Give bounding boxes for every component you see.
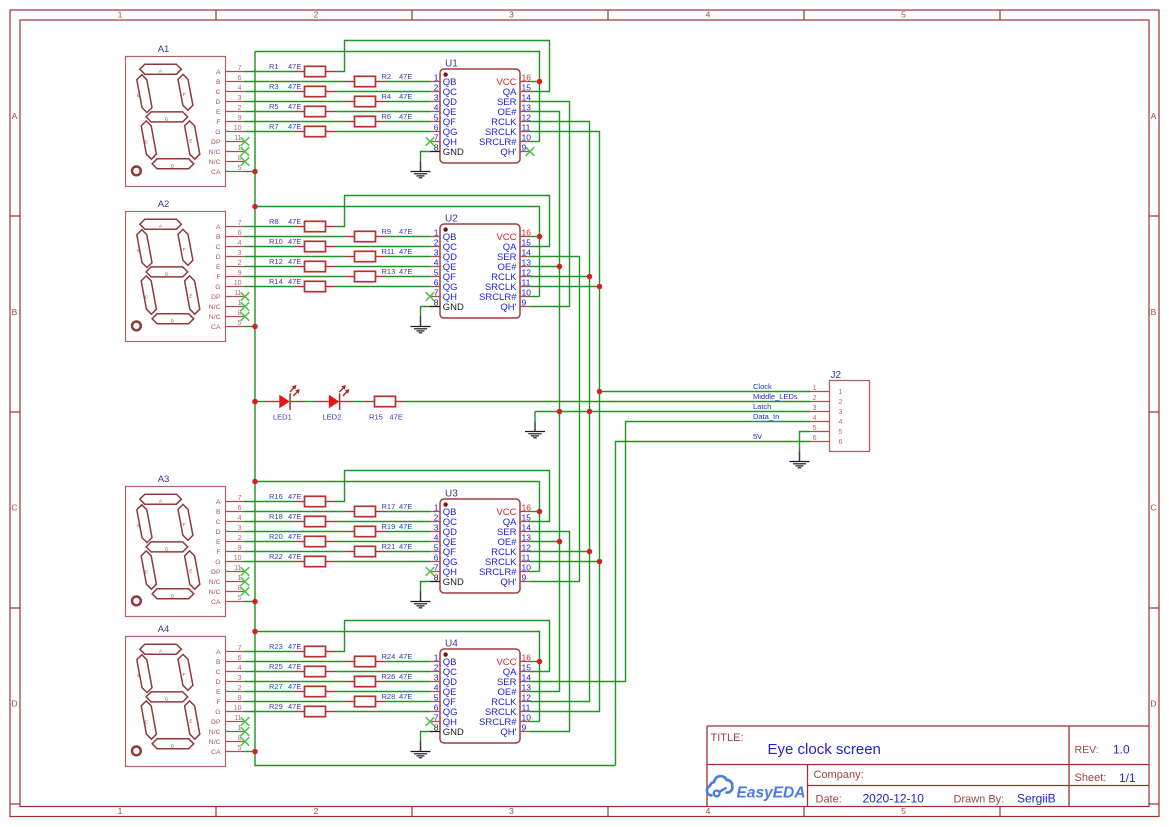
svg-text:8: 8 [434, 297, 439, 307]
svg-text:11: 11 [234, 715, 241, 722]
svg-text:Company:: Company: [814, 769, 864, 781]
wire R24 to QB pin 1 [386, 661, 431, 663]
wire A1 pin E to R5 [245, 111, 296, 113]
svg-text:7: 7 [238, 645, 242, 652]
svg-text:10: 10 [234, 280, 242, 287]
svg-text:Data_In: Data_In [753, 412, 779, 421]
svg-text:G: G [215, 559, 220, 566]
svg-text:47E: 47E [399, 112, 412, 121]
cascade wire U3 QH' to U2 SER [530, 257, 580, 582]
svg-text:47E: 47E [288, 492, 301, 501]
svg-text:6: 6 [813, 435, 817, 442]
resistor R9 [345, 227, 412, 242]
svg-text:3: 3 [434, 522, 439, 532]
svg-text:2: 2 [314, 806, 319, 816]
svg-text:B: B [137, 248, 140, 253]
svg-text:E: E [216, 689, 221, 696]
svg-text:8: 8 [434, 142, 439, 152]
svg-text:R17: R17 [382, 502, 396, 511]
svg-text:14: 14 [522, 522, 532, 532]
node VCC junction U4 [537, 659, 543, 665]
svg-text:15: 15 [522, 82, 532, 92]
svg-text:9: 9 [238, 115, 242, 122]
svg-text:A4: A4 [158, 624, 170, 635]
svg-text:C: C [11, 503, 17, 513]
svg-text:47E: 47E [390, 413, 403, 422]
resistor R16 [269, 492, 336, 507]
svg-text:CA: CA [211, 169, 221, 176]
svg-text:5: 5 [434, 542, 439, 552]
wire R28 to QF pin 5 [386, 701, 431, 703]
svg-text:R15: R15 [369, 413, 383, 422]
svg-text:A: A [216, 649, 221, 656]
J2 ground symbol [790, 462, 810, 468]
svg-text:REV:: REV: [1075, 744, 1099, 756]
svg-text:B: B [216, 79, 221, 86]
svg-text:R28: R28 [382, 692, 396, 701]
shift register IC U2 [430, 214, 531, 319]
svg-text:R7: R7 [269, 122, 279, 131]
svg-text:6: 6 [434, 277, 439, 287]
wire A1 pin A to R1 [245, 71, 296, 73]
svg-text:1: 1 [839, 389, 843, 396]
LED LED1 [266, 385, 305, 422]
title block [707, 726, 1149, 806]
wire 5V to VCC U1 [255, 52, 540, 142]
svg-text:5: 5 [901, 806, 906, 816]
resistor R22 [269, 552, 336, 567]
wire 5V riser to J2 pin 6 [616, 442, 811, 766]
wire SRCLR# to VCC U2 [530, 296, 540, 298]
no-connect X on QH pin 7 [426, 137, 435, 146]
svg-text:F: F [216, 274, 220, 281]
svg-text:C: C [216, 669, 221, 676]
svg-text:F: F [216, 549, 220, 556]
svg-text:10: 10 [522, 712, 532, 722]
svg-text:GND: GND [443, 577, 464, 588]
svg-text:16: 16 [522, 652, 532, 662]
shift register IC U4 [430, 639, 531, 744]
svg-text:A: A [216, 499, 221, 506]
svg-text:47E: 47E [399, 692, 412, 701]
no-connect X on U1 QH' pin 9 [526, 147, 535, 156]
svg-text:9: 9 [238, 695, 242, 702]
seven-segment display A1 [126, 44, 250, 186]
wire R11 to QD pin 3 [386, 256, 431, 258]
svg-text:5: 5 [434, 692, 439, 702]
svg-text:11: 11 [234, 290, 241, 297]
svg-text:2: 2 [434, 237, 439, 247]
svg-text:Middle_LEDs: Middle_LEDs [753, 392, 798, 401]
svg-text:QH': QH' [500, 727, 516, 738]
node 5V bus junction y=206.5 [252, 204, 258, 210]
wire R22 to QG pin 6 [336, 561, 431, 563]
wire SRCLR# to VCC U4 [530, 721, 540, 723]
svg-text:47E: 47E [288, 217, 301, 226]
wire GND pin to ground U4 [421, 732, 431, 742]
svg-text:F: F [216, 119, 220, 126]
wire A4 pin C to R25 [245, 671, 296, 673]
svg-text:B: B [137, 93, 140, 98]
svg-text:10: 10 [522, 287, 532, 297]
svg-text:47E: 47E [288, 682, 301, 691]
svg-text:U1: U1 [445, 59, 458, 70]
svg-text:R6: R6 [382, 112, 392, 121]
svg-text:R27: R27 [269, 682, 283, 691]
resistor R25 [269, 662, 336, 677]
resistor R5 [269, 102, 336, 117]
svg-text:LED2: LED2 [323, 413, 342, 422]
svg-text:A: A [216, 224, 221, 231]
svg-text:E: E [189, 718, 192, 723]
svg-text:R13: R13 [382, 267, 396, 276]
node 5V bus junction y=401.5 [252, 399, 258, 405]
svg-text:3: 3 [434, 672, 439, 682]
svg-text:14: 14 [522, 672, 532, 682]
svg-text:D: D [216, 679, 221, 686]
svg-text:R25: R25 [269, 662, 283, 671]
wire U3 OE# stub [530, 541, 560, 543]
svg-text:A: A [12, 111, 18, 121]
svg-text:1: 1 [434, 72, 439, 82]
svg-text:5: 5 [813, 425, 817, 432]
wire A4 pin A to R23 [245, 651, 296, 653]
svg-text:3: 3 [434, 92, 439, 102]
svg-text:1: 1 [118, 10, 123, 20]
node RCLK junction U3 [587, 549, 593, 555]
svg-text:2: 2 [238, 535, 242, 542]
svg-text:5: 5 [434, 267, 439, 277]
wire R25 to QC pin 2 [336, 671, 431, 673]
svg-text:B: B [1151, 307, 1157, 317]
svg-text:6: 6 [238, 505, 242, 512]
svg-text:9: 9 [522, 722, 527, 732]
svg-text:E: E [216, 109, 221, 116]
wire A4 CA to 5V bus [245, 751, 256, 753]
svg-text:4: 4 [238, 85, 242, 92]
wire A4 pin F to R28 [245, 701, 346, 703]
svg-text:R29: R29 [269, 702, 283, 711]
wire A3 pin D to R19 [245, 531, 346, 533]
5V vertical bus (CA/VCC net) [255, 52, 616, 766]
svg-text:A1: A1 [158, 44, 170, 55]
wire A3 pin G to R22 [245, 561, 296, 563]
svg-text:R10: R10 [269, 237, 283, 246]
wire A3 CA to 5V bus [245, 601, 256, 603]
svg-text:12: 12 [522, 267, 532, 277]
node RCLK junction U2 [587, 274, 593, 280]
svg-text:J2: J2 [831, 370, 842, 381]
svg-text:QH': QH' [500, 302, 516, 313]
svg-text:R2: R2 [382, 72, 392, 81]
svg-text:12: 12 [522, 112, 532, 122]
node VCC junction U3 [537, 509, 543, 515]
svg-text:R23: R23 [269, 642, 283, 651]
wire Latch row: ground / OE# / RCLK to J2 pin 3 [535, 411, 810, 413]
wire R4 to QD pin 3 [386, 101, 431, 103]
wire U2 SRCLK stub [530, 286, 600, 288]
svg-text:47E: 47E [399, 502, 412, 511]
svg-text:Eye clock screen: Eye clock screen [768, 741, 881, 758]
svg-text:2: 2 [238, 685, 242, 692]
svg-text:G: G [215, 129, 220, 136]
wire 5V to VCC U4 [255, 632, 540, 722]
svg-text:47E: 47E [288, 552, 301, 561]
svg-text:2: 2 [839, 399, 843, 406]
SRCLK / Clock vertical bus [530, 132, 600, 712]
node OE# junction latch row [557, 409, 563, 415]
svg-text:2: 2 [314, 10, 319, 20]
resistor R10 [269, 237, 336, 252]
svg-text:C: C [216, 89, 221, 96]
wire A1 pin G to R7 [245, 131, 296, 133]
wire GND pin to ground U2 [421, 307, 431, 317]
svg-text:2: 2 [434, 662, 439, 672]
svg-text:R5: R5 [269, 102, 279, 111]
svg-text:10: 10 [234, 705, 242, 712]
svg-text:7: 7 [434, 712, 439, 722]
svg-text:13: 13 [522, 102, 532, 112]
svg-text:47E: 47E [288, 82, 301, 91]
resistor R4 [345, 92, 412, 107]
svg-text:4: 4 [238, 665, 242, 672]
wire LED2 to R15 [354, 401, 365, 403]
wire LED1 to LED2 [304, 401, 315, 403]
svg-text:C: C [1150, 503, 1156, 513]
svg-text:1: 1 [118, 806, 123, 816]
svg-text:3: 3 [509, 806, 514, 816]
svg-text:QH': QH' [500, 577, 516, 588]
svg-text:G: G [165, 272, 169, 277]
svg-text:47E: 47E [399, 227, 412, 236]
svg-text:F: F [183, 247, 186, 252]
svg-text:7: 7 [434, 562, 439, 572]
svg-text:47E: 47E [288, 702, 301, 711]
RCLK / Latch vertical bus [530, 122, 590, 702]
wire 5V to VCC U2 [255, 207, 540, 297]
svg-text:5: 5 [434, 112, 439, 122]
svg-text:R8: R8 [269, 217, 279, 226]
svg-text:11: 11 [522, 122, 531, 132]
wire GND pin to ground U1 [421, 152, 431, 162]
svg-text:R16: R16 [269, 492, 283, 501]
svg-text:R14: R14 [269, 277, 283, 286]
svg-text:13: 13 [522, 532, 532, 542]
svg-text:G: G [165, 117, 169, 122]
svg-text:G: G [215, 284, 220, 291]
seven-segment display A3 [126, 474, 250, 616]
node SRCLK junction U2 [597, 284, 603, 290]
svg-text:13: 13 [522, 682, 532, 692]
svg-text:11: 11 [522, 552, 531, 562]
svg-text:D: D [1150, 699, 1156, 709]
svg-text:10: 10 [522, 132, 532, 142]
svg-text:3: 3 [509, 10, 514, 20]
svg-text:5V: 5V [753, 432, 762, 441]
svg-text:4: 4 [839, 419, 843, 426]
svg-text:GND: GND [443, 302, 464, 313]
svg-text:1: 1 [434, 227, 439, 237]
wire A2 pin C to R10 [245, 246, 296, 248]
wire VCC stub U1 [530, 81, 540, 83]
node OE# junction U3 [557, 539, 563, 545]
svg-text:3: 3 [238, 95, 242, 102]
svg-text:A2: A2 [158, 199, 170, 210]
wire R7 to QG pin 6 [336, 131, 431, 133]
wire VCC stub U3 [530, 511, 540, 513]
wire A3 pin B to R17 [245, 511, 346, 513]
node 5V bus junction y=481.5 [252, 479, 258, 485]
svg-text:6: 6 [434, 552, 439, 562]
seven-segment display A2 [126, 199, 250, 341]
wire A1 pin F to R6 [245, 121, 346, 123]
seven-segment display A4 [126, 624, 250, 766]
wire A2 pin A to R8 [245, 226, 296, 228]
wire A3 pin A to R16 [245, 501, 296, 503]
svg-text:16: 16 [522, 502, 532, 512]
svg-text:R26: R26 [382, 672, 396, 681]
svg-text:N/C: N/C [209, 149, 221, 156]
wire VCC stub U2 [530, 236, 540, 238]
svg-text:N/C: N/C [209, 579, 221, 586]
svg-text:13: 13 [522, 257, 532, 267]
shift register IC U3 [430, 489, 531, 594]
wire 5V to LED1 [255, 401, 266, 403]
svg-text:A3: A3 [158, 474, 170, 485]
svg-text:GND: GND [443, 727, 464, 738]
svg-text:11: 11 [234, 565, 241, 572]
svg-text:47E: 47E [288, 237, 301, 246]
wire A3 pin F to R21 [245, 551, 346, 553]
svg-text:4: 4 [434, 102, 439, 112]
wire R3 to QC pin 2 [336, 91, 431, 93]
svg-text:16: 16 [522, 72, 532, 82]
svg-text:DP: DP [211, 569, 221, 576]
svg-text:R20: R20 [269, 532, 283, 541]
svg-text:6: 6 [238, 655, 242, 662]
resistor R28 [345, 692, 412, 707]
svg-text:A: A [216, 69, 221, 76]
cascade wire U4 QH' to U3 SER [530, 532, 570, 732]
node LED row 5V junction [252, 399, 258, 405]
svg-text:8: 8 [434, 722, 439, 732]
wire A2 pin B to R9 [245, 236, 346, 238]
svg-text:F: F [183, 92, 186, 97]
svg-text:7: 7 [434, 132, 439, 142]
svg-text:N/C: N/C [209, 739, 221, 746]
OE# vertical bus [530, 112, 560, 692]
svg-text:47E: 47E [399, 72, 412, 81]
svg-text:R19: R19 [382, 522, 396, 531]
wire A4 pin B to R24 [245, 661, 346, 663]
svg-text:47E: 47E [399, 267, 412, 276]
svg-text:F: F [216, 699, 220, 706]
node CA junction A1 [252, 169, 258, 175]
svg-text:Sheet:: Sheet: [1075, 772, 1107, 784]
wire A2 pin F to R13 [245, 276, 346, 278]
node RCLK junction latch row [587, 409, 593, 415]
wire A3 pin E to R20 [245, 541, 296, 543]
cascade wire U2 QH' to U1 SER [530, 102, 570, 307]
svg-text:5: 5 [901, 10, 906, 20]
svg-text:12: 12 [522, 692, 532, 702]
wire R17 to QB pin 1 [386, 511, 431, 513]
svg-text:R1: R1 [269, 62, 279, 71]
svg-text:G: G [165, 697, 169, 702]
wire 5V to VCC U3 [255, 482, 540, 572]
wire R23 to QA (over top) [336, 621, 550, 672]
node OE# junction U2 [557, 264, 563, 270]
node VCC junction U1 [537, 79, 543, 85]
svg-text:B: B [137, 523, 140, 528]
svg-text:3: 3 [238, 675, 242, 682]
resistor R8 [269, 217, 336, 232]
svg-text:47E: 47E [288, 62, 301, 71]
svg-text:3: 3 [813, 405, 817, 412]
wire R20 to QE pin 4 [336, 541, 431, 543]
svg-text:CA: CA [211, 324, 221, 331]
svg-text:F: F [183, 522, 186, 527]
svg-text:U3: U3 [445, 489, 458, 500]
svg-text:6: 6 [238, 75, 242, 82]
resistor R27 [269, 682, 336, 697]
svg-text:R12: R12 [269, 257, 283, 266]
svg-text:2: 2 [434, 82, 439, 92]
wire U2 RCLK stub [530, 276, 590, 278]
svg-text:N/C: N/C [209, 729, 221, 736]
wire J2 pin 5 to ground [800, 432, 811, 452]
no-connect X on QH pin 7 [426, 292, 435, 301]
resistor R13 [345, 267, 412, 282]
resistor R2 [345, 72, 412, 87]
svg-text:A: A [159, 224, 162, 229]
wire R9 to QB pin 1 [386, 236, 431, 238]
svg-text:F: F [183, 672, 186, 677]
resistor R20 [269, 532, 336, 547]
node VCC junction U2 [537, 234, 543, 240]
svg-text:10: 10 [522, 562, 532, 572]
svg-text:D: D [11, 699, 17, 709]
svg-text:Drawn By:: Drawn By: [954, 794, 1005, 806]
svg-text:11: 11 [522, 702, 531, 712]
svg-text:SergiiB: SergiiB [1017, 792, 1056, 806]
svg-text:2: 2 [434, 512, 439, 522]
ground symbol U1 [411, 172, 431, 178]
svg-text:7: 7 [238, 220, 242, 227]
svg-text:47E: 47E [288, 102, 301, 111]
svg-text:C: C [216, 519, 221, 526]
svg-text:10: 10 [234, 555, 242, 562]
wire U3 SRCLK stub [530, 561, 600, 563]
svg-text:R11: R11 [382, 247, 395, 256]
resistor R18 [269, 512, 336, 527]
svg-text:9: 9 [238, 270, 242, 277]
svg-text:11: 11 [522, 277, 531, 287]
svg-text:47E: 47E [399, 92, 412, 101]
svg-text:3: 3 [238, 525, 242, 532]
wire A1 pin C to R3 [245, 91, 296, 93]
wire A3 pin C to R18 [245, 521, 296, 523]
wire A1 CA to 5V bus [245, 171, 256, 173]
wire R6 to QF pin 5 [386, 121, 431, 123]
svg-text:4: 4 [706, 10, 711, 20]
wire Data_In to U4 SER [530, 422, 810, 682]
svg-text:R18: R18 [269, 512, 283, 521]
svg-text:GND: GND [443, 147, 464, 158]
wire A2 pin G to R14 [245, 286, 296, 288]
svg-text:47E: 47E [399, 542, 412, 551]
svg-text:E: E [216, 539, 221, 546]
